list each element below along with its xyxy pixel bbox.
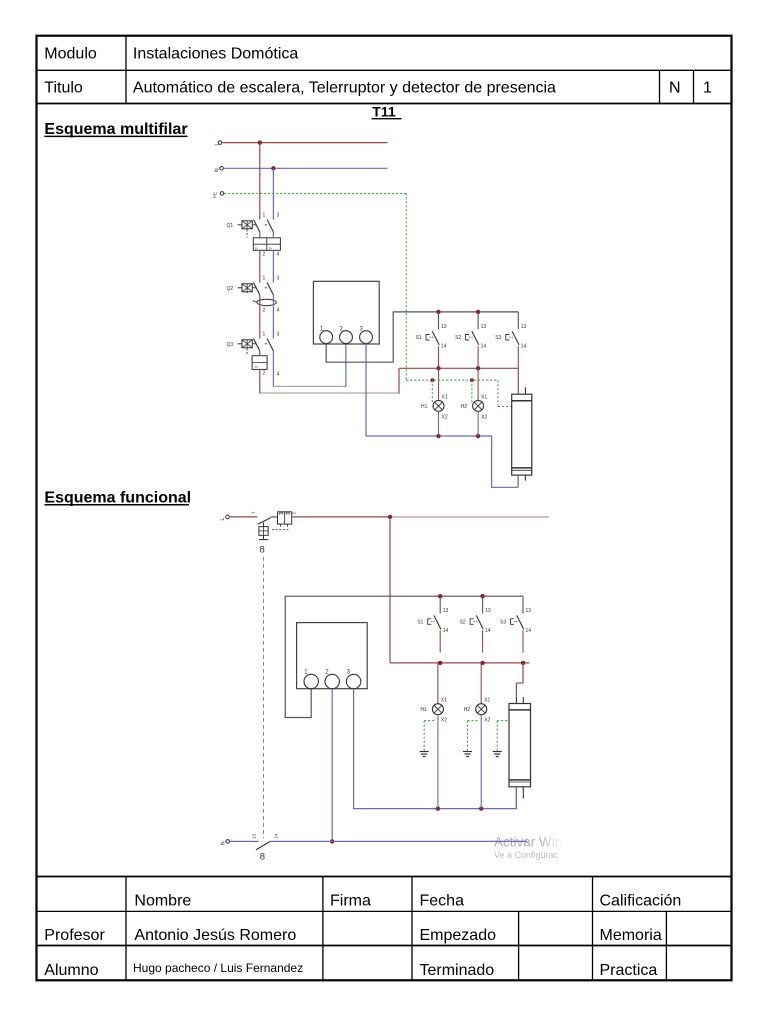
svg-text:1: 1 [263, 213, 266, 219]
svg-text:N: N [221, 841, 227, 845]
svg-text:X1: X1 [442, 394, 448, 400]
svg-text:H2: H2 [461, 404, 468, 410]
svg-text:H1: H1 [420, 707, 427, 713]
svg-text:Titulo: Titulo [44, 80, 83, 97]
svg-text:8: 8 [260, 852, 265, 863]
svg-text:14: 14 [521, 344, 527, 350]
svg-text:Practica: Practica [600, 962, 658, 979]
svg-text:N: N [669, 80, 681, 97]
svg-text:Instalaciones Domótica: Instalaciones Domótica [133, 46, 299, 63]
svg-text:S3: S3 [495, 335, 501, 341]
svg-text:X2: X2 [481, 414, 487, 420]
svg-text:Terminado: Terminado [420, 962, 495, 979]
svg-text:X1: X1 [484, 698, 490, 704]
svg-text:Calificación: Calificación [600, 892, 682, 909]
svg-text:Ve a Configurac: Ve a Configurac [494, 850, 559, 860]
svg-text:Hugo pacheco / Luis Fernandez: Hugo pacheco / Luis Fernandez [133, 961, 303, 975]
svg-text:2: 2 [263, 370, 266, 376]
svg-text:4: 4 [277, 307, 280, 313]
svg-text:4: 4 [277, 371, 280, 377]
svg-text:14: 14 [274, 833, 279, 839]
svg-text:N: N [215, 168, 221, 172]
svg-text:L: L [220, 518, 226, 521]
svg-text:S3: S3 [500, 620, 506, 626]
svg-text:S2: S2 [455, 335, 461, 341]
svg-text:3: 3 [277, 332, 280, 338]
svg-text:4: 4 [277, 251, 280, 257]
svg-text:14: 14 [485, 628, 491, 634]
svg-text:Alumno: Alumno [44, 962, 98, 979]
svg-text:X1: X1 [441, 698, 447, 704]
svg-text:S1: S1 [416, 335, 422, 341]
svg-text:13: 13 [481, 324, 487, 330]
svg-text:Antonio Jesús Romero: Antonio Jesús Romero [134, 927, 296, 944]
svg-text:Fecha: Fecha [420, 892, 465, 909]
svg-text:S2: S2 [460, 620, 466, 626]
svg-text:14: 14 [526, 628, 532, 634]
svg-text:Firma: Firma [330, 892, 371, 909]
svg-text:Memoria: Memoria [600, 927, 662, 944]
svg-text:Esquema multifilar: Esquema multifilar [44, 121, 187, 138]
svg-text:13: 13 [521, 324, 527, 330]
svg-text:X2: X2 [441, 718, 447, 724]
svg-text:X1: X1 [481, 394, 487, 400]
svg-text:2: 2 [263, 307, 266, 313]
svg-text:2: 2 [263, 251, 266, 257]
svg-text:Q2: Q2 [227, 286, 234, 292]
svg-text:S1: S1 [417, 620, 423, 626]
svg-text:H2: H2 [464, 707, 471, 713]
svg-text:Nombre: Nombre [134, 892, 191, 909]
svg-text:X2: X2 [484, 718, 490, 724]
svg-text:Modulo: Modulo [44, 46, 97, 63]
svg-text:1: 1 [263, 332, 266, 338]
svg-text:14: 14 [481, 344, 487, 350]
svg-text:14: 14 [441, 344, 447, 350]
svg-text:Empezado: Empezado [420, 927, 497, 944]
svg-text:13: 13 [251, 833, 256, 839]
svg-text:Esquema funcional: Esquema funcional [44, 489, 191, 506]
svg-text:PE: PE [213, 192, 218, 198]
svg-text:13: 13 [441, 324, 447, 330]
svg-text:Q1: Q1 [227, 223, 234, 229]
svg-text:13: 13 [526, 608, 532, 614]
svg-text:Q3: Q3 [227, 342, 234, 348]
svg-text:H1: H1 [421, 404, 428, 410]
svg-text:1: 1 [263, 276, 266, 282]
svg-text:13: 13 [443, 608, 449, 614]
svg-text:Automático de escalera, Telerr: Automático de escalera, Telerruptor y de… [133, 80, 556, 97]
svg-text:14: 14 [443, 628, 449, 634]
svg-text:3: 3 [277, 213, 280, 219]
svg-text:3: 3 [277, 276, 280, 282]
svg-text:X2: X2 [442, 414, 448, 420]
svg-text:13: 13 [485, 608, 491, 614]
svg-text:1: 1 [703, 80, 712, 97]
svg-text:L: L [215, 143, 221, 146]
svg-text:T11: T11 [372, 104, 396, 120]
svg-text:Profesor: Profesor [44, 927, 105, 944]
svg-text:8: 8 [260, 545, 265, 556]
